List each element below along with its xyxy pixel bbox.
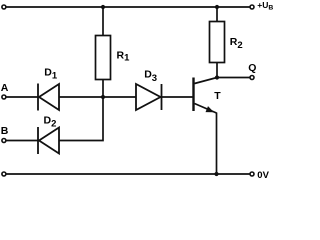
diode D2 [38,127,59,154]
wire input A [6,96,37,98]
wire R2 bottom stub [216,63,218,78]
wire collector to Q [217,77,250,79]
svg-text:A: A [1,82,9,94]
transistor T emitter arrow [206,106,215,112]
wire R1 bottom stub [102,80,104,98]
node junction K [101,95,105,99]
terminal bottom-left [2,172,6,176]
transistor T collector [195,78,218,84]
svg-text:+UB: +UB [257,0,273,12]
node junction 0V rail [214,172,218,176]
wire top rail +UB [6,6,250,8]
svg-text:0V: 0V [257,170,269,181]
svg-text:R1: R1 [117,50,131,64]
node junction top R2 [215,5,219,9]
wire D3 to base [162,96,193,98]
terminal input B [2,139,6,143]
resistor R1 [96,36,111,80]
wire emitter to 0V rail [216,113,218,175]
svg-text:B: B [1,125,9,137]
terminal Q [250,76,254,80]
diode D3 [136,84,162,110]
wire D1 to node K [59,96,103,98]
terminal 0V [250,172,254,176]
wire input B [6,140,37,142]
wire node K to D3 [103,96,136,98]
terminal top-left [2,5,6,9]
node junction top R1 [101,5,105,9]
svg-text:D3: D3 [144,69,157,84]
svg-text:D2: D2 [44,115,57,130]
wire R2 top stub [216,7,218,22]
transistor T base bar [192,78,194,112]
svg-text:T: T [214,90,221,102]
diode D1 [38,84,59,111]
svg-text:D1: D1 [44,67,58,82]
terminal input A [2,95,6,99]
wire D2 branch to node K [59,97,103,141]
resistor R2 [210,22,225,63]
terminal +UB [250,5,254,9]
wire R1 top stub [102,7,104,36]
transistor T emitter [195,104,217,114]
node junction collector [215,75,219,79]
svg-text:Q: Q [248,62,256,74]
svg-text:R2: R2 [230,36,243,51]
wire bottom rail 0V [6,173,250,175]
